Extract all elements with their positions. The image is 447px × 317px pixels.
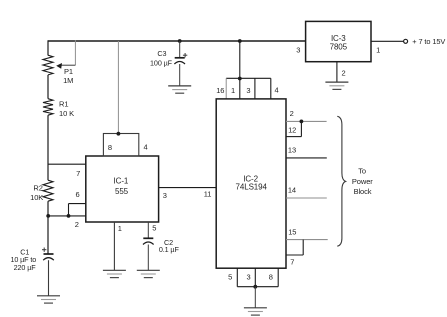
svg-text:2: 2: [75, 220, 79, 229]
svg-text:1: 1: [376, 46, 380, 55]
svg-text:1M: 1M: [63, 76, 73, 85]
svg-text:3: 3: [296, 46, 300, 55]
ground: [37, 296, 60, 303]
svg-text:To: To: [358, 167, 366, 176]
IC U2 IC-2 74LS194: [216, 99, 286, 268]
resistor R2 10K: [30, 180, 53, 202]
node junction A: [46, 214, 50, 218]
svg-text:15: 15: [288, 228, 296, 237]
wire left rail lower: [47, 201, 49, 254]
wire pin2 out: [286, 109, 327, 121]
svg-text:5: 5: [152, 223, 156, 232]
node junction G: [300, 120, 304, 124]
wire left rail top: [47, 40, 49, 55]
wire supply to IC-1: [117, 41, 119, 134]
brace to power block: [337, 116, 345, 246]
svg-text:16: 16: [216, 86, 224, 95]
node junction B: [67, 214, 71, 218]
node junction E: [238, 39, 242, 43]
svg-text:7: 7: [76, 169, 80, 178]
svg-text:7805: 7805: [330, 43, 348, 52]
svg-text:1: 1: [231, 86, 235, 95]
node junction C: [117, 132, 121, 136]
ground: [325, 82, 348, 89]
wire: [48, 260, 50, 296]
svg-text:6: 6: [75, 190, 79, 199]
capacitor C3 100uF: [150, 41, 187, 86]
svg-text:555: 555: [115, 187, 129, 196]
svg-text:11: 11: [204, 190, 212, 199]
capacitor C1: [10, 248, 53, 272]
wire pin13 out: [286, 145, 327, 158]
wire pin15 out: [286, 228, 328, 240]
svg-text:3: 3: [246, 273, 250, 282]
regulator U3 IC-3 7805: [296, 21, 380, 61]
svg-text:10K: 10K: [30, 193, 43, 202]
node output terminal: [404, 37, 446, 46]
svg-text:3: 3: [246, 86, 250, 95]
svg-text:74LS194: 74LS194: [236, 183, 268, 192]
ground: [103, 270, 126, 277]
svg-text:C3: C3: [157, 49, 166, 58]
svg-text:1: 1: [118, 224, 122, 233]
resistor R1 10K: [43, 99, 74, 118]
pin box 8-4: [103, 134, 147, 157]
svg-text:14: 14: [288, 186, 296, 195]
svg-text:R2: R2: [33, 183, 42, 192]
wire output: [371, 40, 403, 42]
wire: [47, 75, 49, 99]
ground: [168, 86, 191, 93]
wire left rail mid: [47, 115, 49, 180]
wire pin5: [148, 222, 156, 238]
svg-text:0.1 µF: 0.1 µF: [159, 245, 180, 254]
wire: [254, 287, 256, 308]
svg-text:4: 4: [275, 86, 279, 95]
svg-text:8: 8: [108, 143, 112, 152]
svg-text:2: 2: [290, 109, 294, 118]
wire pin6: [69, 190, 86, 216]
svg-text:220 µF: 220 µF: [14, 263, 37, 272]
ground: [137, 270, 160, 277]
node junction H: [253, 285, 257, 289]
svg-text:8: 8: [269, 273, 273, 282]
pin box 7: [286, 240, 303, 267]
svg-text:7: 7: [290, 258, 294, 267]
svg-text:Power: Power: [352, 177, 373, 186]
wire pin2 IC-3: [337, 62, 346, 82]
wire pin3 to pin11: [159, 188, 217, 200]
pin box 16-1-3-4: [216, 78, 278, 99]
svg-text:10 K: 10 K: [59, 109, 74, 118]
wire P1 wiper: [56, 40, 75, 68]
svg-text:2: 2: [341, 69, 345, 78]
svg-text:IC-1: IC-1: [114, 177, 129, 186]
wire V+ top rail: [48, 40, 306, 42]
svg-text:12: 12: [288, 125, 296, 134]
ground: [244, 308, 267, 315]
svg-text:5: 5: [228, 273, 232, 282]
svg-text:3: 3: [163, 191, 167, 200]
label To Power Block: [352, 167, 373, 196]
pin box 12: [286, 121, 301, 136]
wire: [147, 245, 149, 271]
node junction D: [178, 39, 182, 43]
capacitor C2 0.1uF: [143, 238, 179, 254]
op-amp U1 IC-1 555: [86, 156, 159, 222]
svg-text:13: 13: [288, 145, 296, 154]
wire pin1: [114, 222, 121, 270]
svg-text:100 µF: 100 µF: [150, 58, 173, 67]
svg-text:4: 4: [144, 143, 148, 152]
wire pin2: [48, 216, 86, 229]
svg-text:Block: Block: [354, 187, 372, 196]
wire pin14 out: [286, 186, 327, 199]
potentiometer P1 1M: [43, 55, 73, 85]
node junction F: [238, 77, 242, 81]
svg-text:P1: P1: [64, 67, 73, 76]
pin box 5-3-8: [228, 268, 278, 287]
svg-text:R1: R1: [59, 100, 68, 109]
wire supply to IC-2: [239, 41, 241, 78]
svg-text:+ 7 to 15V: + 7 to 15V: [412, 37, 445, 46]
wire pin7: [48, 164, 86, 178]
